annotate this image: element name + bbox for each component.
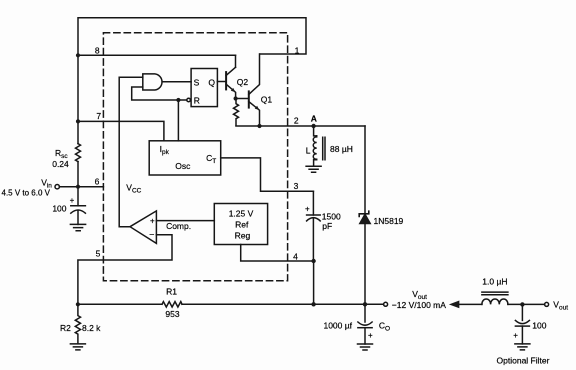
capacitor CO flat plate — [358, 327, 372, 329]
svg-text:Q1: Q1 — [261, 94, 273, 104]
filter inductor core bars — [482, 292, 508, 295]
svg-text:−: − — [149, 230, 154, 240]
svg-text:100: 100 — [52, 203, 66, 213]
svg-text:A: A — [311, 113, 317, 123]
ground filter cap — [515, 344, 530, 350]
wire CT output pin 3 — [221, 158, 314, 191]
wire 1500pF to pin4 node — [312, 218, 314, 261]
node Q1 emitter junction — [257, 124, 261, 128]
svg-text:8: 8 — [95, 46, 100, 56]
transistor Q1 emitter arrow — [255, 106, 260, 110]
svg-text:1.25 V: 1.25 V — [229, 208, 254, 218]
svg-text:pF: pF — [322, 221, 332, 231]
transistor Q2 base bar — [225, 72, 227, 89]
wire pin 8 — [78, 54, 236, 56]
svg-text:Q2: Q2 — [237, 77, 249, 87]
svg-text:5: 5 — [96, 248, 101, 258]
terminal Vout circle — [545, 302, 549, 306]
svg-text:8.2 k: 8.2 k — [82, 323, 101, 333]
svg-text:+: + — [70, 196, 75, 205]
inductor L core bars — [323, 137, 325, 160]
resistor base-emitter — [234, 99, 239, 126]
transistor Q2 emitter arrow — [231, 88, 236, 92]
comparator plus input wire — [156, 220, 214, 222]
node A junction — [311, 124, 315, 128]
IC dashed boundary MC34063 — [103, 33, 287, 281]
wire pin6 junction down to input cap — [77, 187, 79, 206]
wire node A down to inductor — [314, 126, 317, 136]
svg-text:3: 3 — [294, 181, 299, 191]
comparator triangle — [130, 211, 156, 244]
svg-text:Comp.: Comp. — [166, 221, 191, 231]
svg-text:1000 µf: 1000 µf — [323, 320, 352, 330]
svg-text:1500: 1500 — [322, 211, 341, 221]
wire CO drop — [364, 304, 366, 322]
svg-text:Reg: Reg — [235, 230, 251, 240]
wire filter cap to ground — [521, 326, 523, 344]
svg-text:Ref: Ref — [235, 219, 249, 229]
node pin4 rail junction — [311, 302, 315, 306]
ground CO — [358, 344, 373, 350]
capacitor 1500pF flat plate — [307, 214, 321, 216]
wire input cap to ground — [77, 210, 79, 224]
svg-text:1N5819: 1N5819 — [374, 216, 404, 226]
wire Rsc bottom to pin6 junction — [77, 162, 79, 187]
wire bottom output rail — [78, 303, 384, 305]
wire R junction to Osc top — [177, 100, 179, 141]
output terminal circle — [384, 302, 388, 306]
ground inductor L — [306, 166, 321, 172]
ground input cap — [70, 224, 85, 230]
svg-text:+: + — [150, 217, 155, 226]
svg-text:953: 953 — [165, 309, 179, 319]
wire AND lower input feedback — [132, 87, 187, 100]
svg-text:S: S — [194, 78, 200, 88]
svg-text:88 µH: 88 µH — [330, 144, 353, 154]
AND gate U1a — [143, 74, 162, 90]
resistor Rsc — [76, 144, 81, 162]
svg-text:Optional Filter: Optional Filter — [497, 355, 550, 365]
capacitor 100 input flat plate — [71, 205, 86, 207]
wire arrow to filter inductor — [459, 303, 482, 305]
wire pin4 node to output rail — [313, 261, 315, 304]
svg-text:R: R — [194, 96, 200, 106]
wire pin 7 — [78, 121, 164, 140]
wire Ref Reg output pin 4 — [241, 245, 314, 262]
wire Vin terminal to pin 6 — [59, 186, 103, 188]
terminal Vin circle — [55, 185, 59, 189]
transistor Q1 base bar — [248, 91, 250, 107]
svg-text:L: L — [306, 146, 311, 156]
wire pin3 down to 1500pF — [312, 191, 314, 215]
svg-text:6: 6 — [95, 177, 100, 187]
reference regulator box — [214, 204, 267, 245]
diode 1N5819 triangle — [360, 214, 370, 223]
svg-text:1.0 µH: 1.0 µH — [482, 277, 507, 287]
node Q2 emitter junction — [234, 96, 238, 100]
wire Q2 collector drop — [235, 55, 237, 67]
svg-text:R2: R2 — [60, 323, 71, 333]
svg-text:+: + — [368, 331, 373, 340]
inductor L coil — [313, 136, 316, 166]
svg-text:−12 V/100 mA: −12 V/100 mA — [392, 300, 446, 310]
resistor R2 — [75, 304, 80, 342]
capacitor 100 filter flat plate — [515, 325, 529, 327]
node pin6 junction — [76, 185, 80, 189]
wire left Vin rail pin8 to pin7 — [77, 55, 79, 121]
capacitor 100 input curved plate — [71, 210, 86, 213]
filter inductor 1.0uH coil — [482, 299, 508, 304]
wire comparator output to AND gate input — [119, 77, 143, 226]
svg-text:1: 1 — [295, 45, 300, 55]
wire emitter rail pin 2 to node A — [236, 125, 365, 127]
wire pin7 junction to Rsc top — [77, 121, 79, 143]
transistor Q1 emitter — [249, 102, 260, 126]
svg-text:100: 100 — [532, 321, 546, 331]
wire diode anode to output rail — [364, 224, 366, 305]
wire CO to ground — [364, 328, 366, 344]
svg-text:2: 2 — [294, 116, 299, 126]
svg-text:+: + — [513, 331, 518, 340]
transistor Q2 collector — [226, 67, 235, 75]
node pin4 junction — [311, 259, 315, 263]
svg-text:R1: R1 — [166, 287, 177, 297]
node filter cap junction — [520, 302, 524, 306]
svg-text:Osc: Osc — [175, 161, 191, 171]
oscillator block — [149, 141, 221, 175]
latch box — [191, 69, 217, 107]
wire Q2 emitter to Q1 base — [236, 98, 249, 100]
wire Q output to Q2 base — [217, 81, 226, 83]
wire filter cap drop — [521, 304, 523, 320]
output arrow — [451, 302, 459, 308]
svg-text:+: + — [305, 205, 310, 214]
svg-text:7: 7 — [96, 111, 101, 121]
wire AND output to S — [163, 81, 191, 83]
transistor Q2 emitter — [226, 84, 236, 98]
wire node A to diode top — [364, 126, 366, 214]
capacitor CO curved plate — [358, 322, 372, 325]
resistor R1 — [162, 302, 182, 307]
capacitor 100 filter curved plate — [515, 320, 529, 323]
wire filter inductor to Vout terminal — [508, 303, 545, 305]
svg-text:0.24: 0.24 — [52, 159, 69, 169]
node pin8 junction — [76, 53, 80, 57]
svg-text:4: 4 — [293, 252, 298, 262]
svg-text:4.5 V to 6.0 V: 4.5 V to 6.0 V — [2, 188, 51, 197]
node pin7 junction — [76, 119, 80, 123]
node CO junction — [363, 302, 367, 306]
R input bubble — [187, 98, 191, 102]
diode 1N5819 schottky cathode — [359, 211, 369, 216]
ground R2 — [70, 344, 85, 350]
wire outer top loop Vin rail to pin 1 — [78, 18, 306, 56]
capacitor 1500pF curved plate — [307, 218, 321, 221]
node R1 R2 junction — [76, 302, 80, 306]
node R input junction — [176, 98, 180, 102]
svg-text:Q: Q — [208, 78, 215, 88]
transistor Q1 collector — [249, 54, 260, 94]
comparator minus input wire to pin 5 — [78, 235, 172, 305]
